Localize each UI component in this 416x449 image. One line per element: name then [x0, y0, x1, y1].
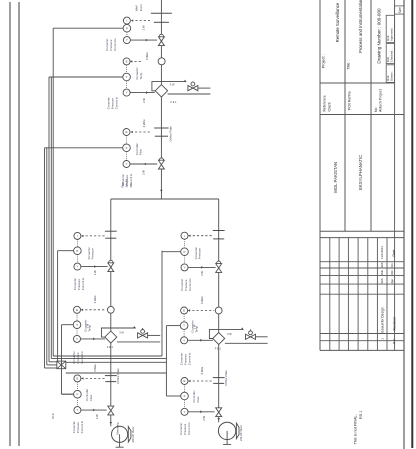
control valve V2 actuator — [159, 158, 163, 162]
pump shaft left train — [119, 434, 121, 447]
orifice plate P left train — [105, 230, 117, 232]
header left drop pipe — [110, 199, 112, 426]
title block left edge — [319, 0, 321, 350]
svg-text:2 W: 2 W — [142, 98, 146, 103]
svg-text:Approved :: Approved : — [390, 27, 394, 41]
revision table column line 4 — [357, 238, 359, 351]
svg-text:Current to: Current to — [115, 96, 119, 109]
svg-text:4 Wire: 4 Wire — [200, 296, 204, 304]
svg-text:Remote Surveillance: Remote Surveillance — [335, 2, 340, 42]
svg-text:Pressure: Pressure — [183, 353, 187, 365]
bypass stub lower right train — [225, 342, 268, 344]
svg-text:Pressure: Pressure — [183, 423, 187, 435]
svg-text:E: E — [125, 130, 127, 134]
instrument bubbles PIT stack top train — [123, 17, 130, 24]
control valve P left train actuator — [109, 260, 113, 264]
svg-text:Pressure: Pressure — [184, 279, 188, 291]
thermowell TE left train — [107, 306, 114, 313]
svg-text:Orifice Plate: Orifice Plate — [224, 370, 228, 386]
svg-text:Converter: Converter — [194, 247, 198, 259]
svg-text:Current to: Current to — [80, 351, 84, 364]
wire TY to flow element left train — [81, 338, 105, 340]
title block row divider b — [320, 114, 404, 116]
svg-text:Converter: Converter — [73, 278, 77, 290]
svg-text:Rob: Rob — [386, 57, 390, 63]
orifice plate F left train — [105, 375, 117, 377]
signal dashed line PIT to pipe — [131, 20, 150, 22]
bypass valve left train body — [138, 333, 148, 338]
svg-text:PLC: PLC — [51, 412, 55, 419]
svg-text:From: From — [139, 4, 143, 12]
wire FIT mid left train — [62, 393, 74, 395]
pump motor bracket right train — [236, 423, 239, 439]
wire PIT mid to PLC bundle — [53, 27, 123, 29]
wire FY to control valve — [130, 163, 158, 165]
drawn box — [386, 65, 394, 83]
svg-text:Current to: Current to — [81, 277, 85, 290]
title block divider col1 — [344, 0, 346, 231]
svg-text:Pipe: Pipe — [120, 182, 124, 188]
pump shaft right train — [226, 431, 228, 445]
svg-text:2 W: 2 W — [193, 324, 197, 329]
svg-text:2 in: 2 in — [129, 183, 133, 188]
svg-text:4 Wire: 4 Wire — [142, 119, 146, 127]
svg-text:Size: Size — [398, 7, 402, 13]
svg-text:4 Wire: 4 Wire — [93, 364, 97, 372]
svg-text:2 W: 2 W — [93, 270, 97, 275]
control valve P right train body — [216, 264, 222, 273]
signal dashed line TIT right train — [188, 310, 214, 312]
instrument bubbles PIT stack left train — [74, 232, 81, 239]
svg-text:Drawn :: Drawn : — [390, 71, 394, 81]
svg-text:Well: Well — [135, 5, 139, 11]
svg-text:Alternating: Alternating — [116, 422, 120, 435]
thermowell TE right train — [215, 307, 222, 314]
svg-text:PO# Ref No: PO# Ref No — [347, 91, 351, 110]
svg-text:P: P — [126, 26, 128, 30]
svg-text:Controller: Controller — [85, 389, 89, 401]
svg-text:2 W: 2 W — [86, 323, 90, 328]
shutoff valve right train — [216, 408, 222, 417]
svg-text:Rob: Rob — [386, 35, 390, 41]
svg-text:2 W: 2 W — [142, 170, 146, 175]
wire TIT mid right train — [166, 325, 180, 327]
bypass drop to valve — [192, 82, 194, 86]
signal dashed line PIT right train — [189, 235, 214, 237]
svg-text:Current to: Current to — [113, 38, 117, 51]
bypass valve right train body — [246, 334, 256, 339]
bypass line upper left train — [102, 328, 136, 337]
svg-text:Converter: Converter — [72, 421, 76, 433]
drawing frame outer left border — [9, 2, 11, 446]
bypass line upper top train — [152, 82, 186, 91]
title block divider col2 — [370, 0, 372, 231]
instrument bubbles TIT stack left train — [74, 306, 81, 313]
wire FY to valve left train — [81, 409, 107, 411]
svg-text:Y: Y — [76, 265, 78, 269]
flow element diamond right train — [213, 333, 225, 345]
svg-text:Converter: Converter — [105, 38, 109, 50]
svg-text:Process and Instrumentation: Process and Instrumentation — [358, 0, 363, 53]
checked box — [386, 44, 394, 64]
signal dashed line TIT left train — [81, 309, 106, 311]
header right drop pipe — [218, 199, 220, 422]
wire PIT mid right train — [162, 251, 181, 253]
svg-text:Pressure: Pressure — [77, 278, 81, 290]
svg-text:Orifice Plate: Orifice Plate — [168, 126, 172, 142]
bypass valve right train actuator — [249, 331, 253, 335]
flow arrow on pipe above pump left train — [109, 422, 112, 424]
svg-text:Y: Y — [125, 162, 127, 166]
title block table top — [320, 237, 404, 239]
instrument bubbles PIT stack right train — [181, 232, 188, 239]
svg-text:3 W: 3 W — [119, 330, 124, 334]
svg-text:Revision: Revision — [393, 317, 397, 330]
svg-text:F E 1: F E 1 — [215, 347, 222, 351]
svg-text:Converter: Converter — [107, 97, 111, 109]
size box — [395, 6, 404, 14]
revision table column line 1 — [329, 238, 331, 351]
instrument bubbles FIT stack right train — [181, 378, 188, 385]
title block divider col3 — [394, 0, 396, 350]
bypass stub upper right train — [256, 336, 268, 338]
svg-text:Converter: Converter — [135, 67, 139, 79]
pump motor bracket left train — [128, 427, 131, 443]
revision table column line 7 — [386, 238, 388, 351]
svg-text:Issued for Design: Issued for Design — [381, 307, 385, 333]
svg-text:Sch 40: Sch 40 — [125, 179, 129, 188]
svg-text:240 HP Motor: 240 HP Motor — [239, 425, 243, 441]
svg-text:Checked :: Checked : — [390, 49, 394, 62]
svg-text:Flow: Flow — [139, 148, 143, 155]
svg-text:Reference: Reference — [322, 95, 326, 111]
revision table row line 7 — [320, 340, 404, 342]
drawing frame inner left border — [18, 2, 20, 446]
svg-text:Date: Date — [392, 249, 396, 256]
signal dashed line FIT — [131, 131, 150, 133]
svg-text:Pressure: Pressure — [76, 422, 80, 434]
signal dashed line FIT right train — [189, 380, 214, 382]
revision table column line 5 — [367, 238, 369, 351]
flow element FE1 diamond — [155, 85, 167, 97]
control valve V1 body — [158, 37, 164, 46]
svg-text:F E 1: F E 1 — [107, 345, 114, 349]
svg-text:Y: Y — [183, 266, 185, 270]
wire bundle vertical 1 — [44, 148, 46, 368]
svg-text:Rob: Rob — [386, 75, 390, 81]
svg-text:T: T — [76, 323, 78, 327]
revision table row line 5 — [320, 293, 404, 295]
junction box — [57, 361, 66, 369]
svg-text:Temp: Temp — [139, 72, 143, 79]
svg-text:Y: Y — [183, 410, 185, 414]
svg-text:EKSYLPHANATIC: EKSYLPHANATIC — [358, 155, 363, 190]
svg-text:Flow: Flow — [196, 396, 200, 403]
shutoff valve left train — [108, 406, 114, 415]
svg-text:P: P — [76, 249, 78, 253]
svg-text:2 W: 2 W — [202, 416, 206, 421]
svg-text:MOL PAKISTAN: MOL PAKISTAN — [333, 162, 338, 193]
svg-text:Converter: Converter — [179, 423, 183, 435]
wire FIT mid right train — [166, 395, 181, 397]
svg-text:RS 1: RS 1 — [359, 411, 363, 419]
svg-text:Pressure: Pressure — [91, 248, 95, 260]
svg-text:Y: Y — [76, 337, 78, 341]
svg-text:E: E — [76, 308, 78, 312]
svg-text:3 W: 3 W — [170, 82, 175, 86]
wire bundle vertical 3 — [52, 28, 54, 356]
wire right P stack drop — [161, 251, 163, 356]
wire TY to flow element — [130, 92, 155, 94]
pump circle right train — [218, 422, 235, 439]
svg-text:F E 1: F E 1 — [170, 100, 177, 104]
svg-text:Rob: Rob — [380, 270, 384, 275]
wire bundle vertical 1b — [46, 148, 48, 365]
svg-text:240 HP Motor: 240 HP Motor — [131, 426, 135, 442]
svg-text:Converter: Converter — [87, 247, 91, 259]
revision table row line 6 — [320, 333, 404, 335]
svg-text:Flow: Flow — [89, 394, 93, 401]
wire left P stack drop — [57, 251, 59, 362]
wire FY to valve right train — [188, 411, 215, 413]
wire TIT mid to PLC bundle — [49, 76, 123, 78]
orifice plate F right train — [213, 377, 225, 379]
bypass stub line upper — [198, 87, 210, 89]
svg-text:Rob: Rob — [380, 278, 384, 283]
svg-text:F: F — [126, 146, 128, 150]
instrument bubbles FIT stack top train — [123, 129, 130, 136]
bypass valve top train actuator — [191, 82, 195, 86]
orifice plate P right train — [213, 230, 225, 232]
svg-text:No: No — [374, 107, 378, 112]
flow arrow on pipe above pump right train — [217, 418, 220, 420]
svg-text:This is not FINAL.: This is not FINAL. — [353, 414, 357, 444]
bypass valve top train body — [188, 86, 198, 91]
bypass stub upper left train — [148, 334, 161, 336]
svg-text:Project :: Project : — [321, 54, 325, 68]
svg-text:Chk :: Chk : — [391, 269, 394, 275]
instrument bubbles TIT stack right train — [181, 307, 188, 314]
svg-text:Converter: Converter — [179, 353, 183, 365]
approved box — [386, 15, 394, 42]
svg-text:Pressure: Pressure — [111, 98, 115, 110]
control valve P right train actuator — [217, 261, 221, 265]
revision table column line 6 — [376, 238, 378, 351]
svg-text:Current to: Current to — [188, 278, 192, 291]
wire bus lower — [66, 372, 167, 374]
svg-text:11/1/2011: 11/1/2011 — [380, 246, 384, 259]
svg-text:Pressure: Pressure — [198, 248, 202, 260]
drawing frame outer right border — [411, 0, 413, 448]
svg-text:4 Wire: 4 Wire — [145, 52, 149, 60]
svg-text:Antech Project: Antech Project — [379, 89, 383, 112]
wire PIT mid left train — [58, 250, 74, 252]
header pipe horizontal — [111, 198, 219, 200]
svg-text:2 W: 2 W — [141, 25, 145, 30]
wire right T F drop — [165, 326, 167, 396]
svg-text:Current to: Current to — [187, 352, 191, 365]
svg-text:Converter: Converter — [72, 351, 76, 363]
control valve V2 body — [158, 160, 164, 169]
svg-text:App :: App : — [391, 277, 394, 283]
orifice plate top train — [154, 127, 168, 129]
svg-text:Controller: Controller — [192, 390, 196, 402]
wire PY to control valve — [131, 39, 158, 41]
svg-text:Rob: Rob — [380, 262, 384, 267]
revision table row line 1 — [320, 261, 404, 263]
svg-text:R 0: R 0 — [392, 339, 396, 344]
svg-text:E: E — [126, 60, 128, 64]
svg-text:4 Wire: 4 Wire — [93, 295, 97, 303]
svg-text:Pressure: Pressure — [109, 39, 113, 51]
svg-text:Title :: Title : — [346, 60, 350, 69]
wire bundle vertical 2b — [50, 77, 52, 358]
svg-text:3 W: 3 W — [227, 332, 232, 336]
bypass valve left train actuator — [141, 330, 145, 334]
svg-text:Drn :: Drn : — [391, 262, 394, 268]
svg-text:Orifice Plate: Orifice Plate — [116, 368, 120, 384]
wire PY to valve right train — [188, 266, 215, 268]
svg-text:F: F — [184, 394, 186, 398]
svg-text:2 W: 2 W — [95, 414, 99, 419]
wire TY to flow element right train — [188, 339, 213, 341]
control valve P left train body — [108, 263, 114, 272]
svg-text:Y: Y — [183, 338, 185, 342]
svg-text:P: P — [183, 250, 185, 254]
svg-text:T: T — [183, 324, 185, 328]
wellhead connection double bar — [151, 12, 172, 14]
svg-text:Client: Client — [328, 103, 332, 112]
wire bus junction to mid — [66, 361, 167, 363]
svg-text:Current to: Current to — [187, 422, 191, 435]
wire TIT mid left train — [62, 324, 74, 326]
revision table column line 2 — [338, 238, 340, 351]
title block row divider a — [320, 82, 395, 84]
wire FIT mid to PLC bundle — [45, 147, 123, 149]
pipe main inlet line — [160, 0, 162, 199]
svg-text:T: T — [126, 75, 128, 79]
wire PY to valve left train — [81, 266, 108, 268]
svg-text:Converter: Converter — [180, 278, 184, 290]
svg-text:Y: Y — [126, 91, 128, 95]
title block table bottom — [320, 349, 404, 351]
svg-text:Controller: Controller — [135, 143, 139, 155]
svg-text:Drawing Number : 000-000: Drawing Number : 000-000 — [377, 8, 382, 64]
svg-text:E: E — [183, 379, 185, 383]
title block row divider c — [320, 230, 404, 232]
bypass line upper right train — [209, 329, 243, 338]
bypass stub line lower — [168, 93, 211, 95]
revision table column line 3 — [347, 238, 349, 351]
signal dashed line PIT left train — [81, 235, 105, 237]
svg-text:Current to: Current to — [80, 420, 84, 433]
signal dashed line TIT — [130, 60, 141, 62]
revision table row line 3 — [320, 275, 404, 277]
svg-text:4 Wire: 4 Wire — [200, 366, 204, 374]
bypass drop left train — [142, 328, 144, 332]
thermowell TE on pipe — [158, 58, 165, 65]
bypass drop right train — [250, 329, 252, 333]
svg-text:Y: Y — [76, 408, 78, 412]
revision table row line 2 — [320, 267, 404, 269]
revision table row line 4 — [320, 283, 404, 285]
bypass stub lower left train — [117, 341, 160, 343]
svg-text:2 W: 2 W — [200, 271, 204, 276]
drawing frame inner right border — [403, 0, 405, 449]
instrument bubbles FIT stack left train — [74, 375, 81, 382]
control valve V1 actuator — [159, 34, 163, 38]
pump circle left train — [112, 426, 128, 442]
instrument bubbles TIT stack top train — [123, 58, 130, 65]
flow arrow on pipe above header — [160, 190, 163, 192]
svg-text:Y: Y — [126, 38, 128, 42]
wire left T stack drop — [61, 325, 63, 395]
svg-text:F: F — [76, 392, 78, 396]
signal dashed line FIT left train — [81, 377, 105, 379]
flow element diamond left train — [105, 331, 117, 343]
svg-text:E: E — [76, 377, 78, 381]
wire bundle vertical 2 — [48, 77, 50, 362]
svg-text:E: E — [183, 309, 185, 313]
